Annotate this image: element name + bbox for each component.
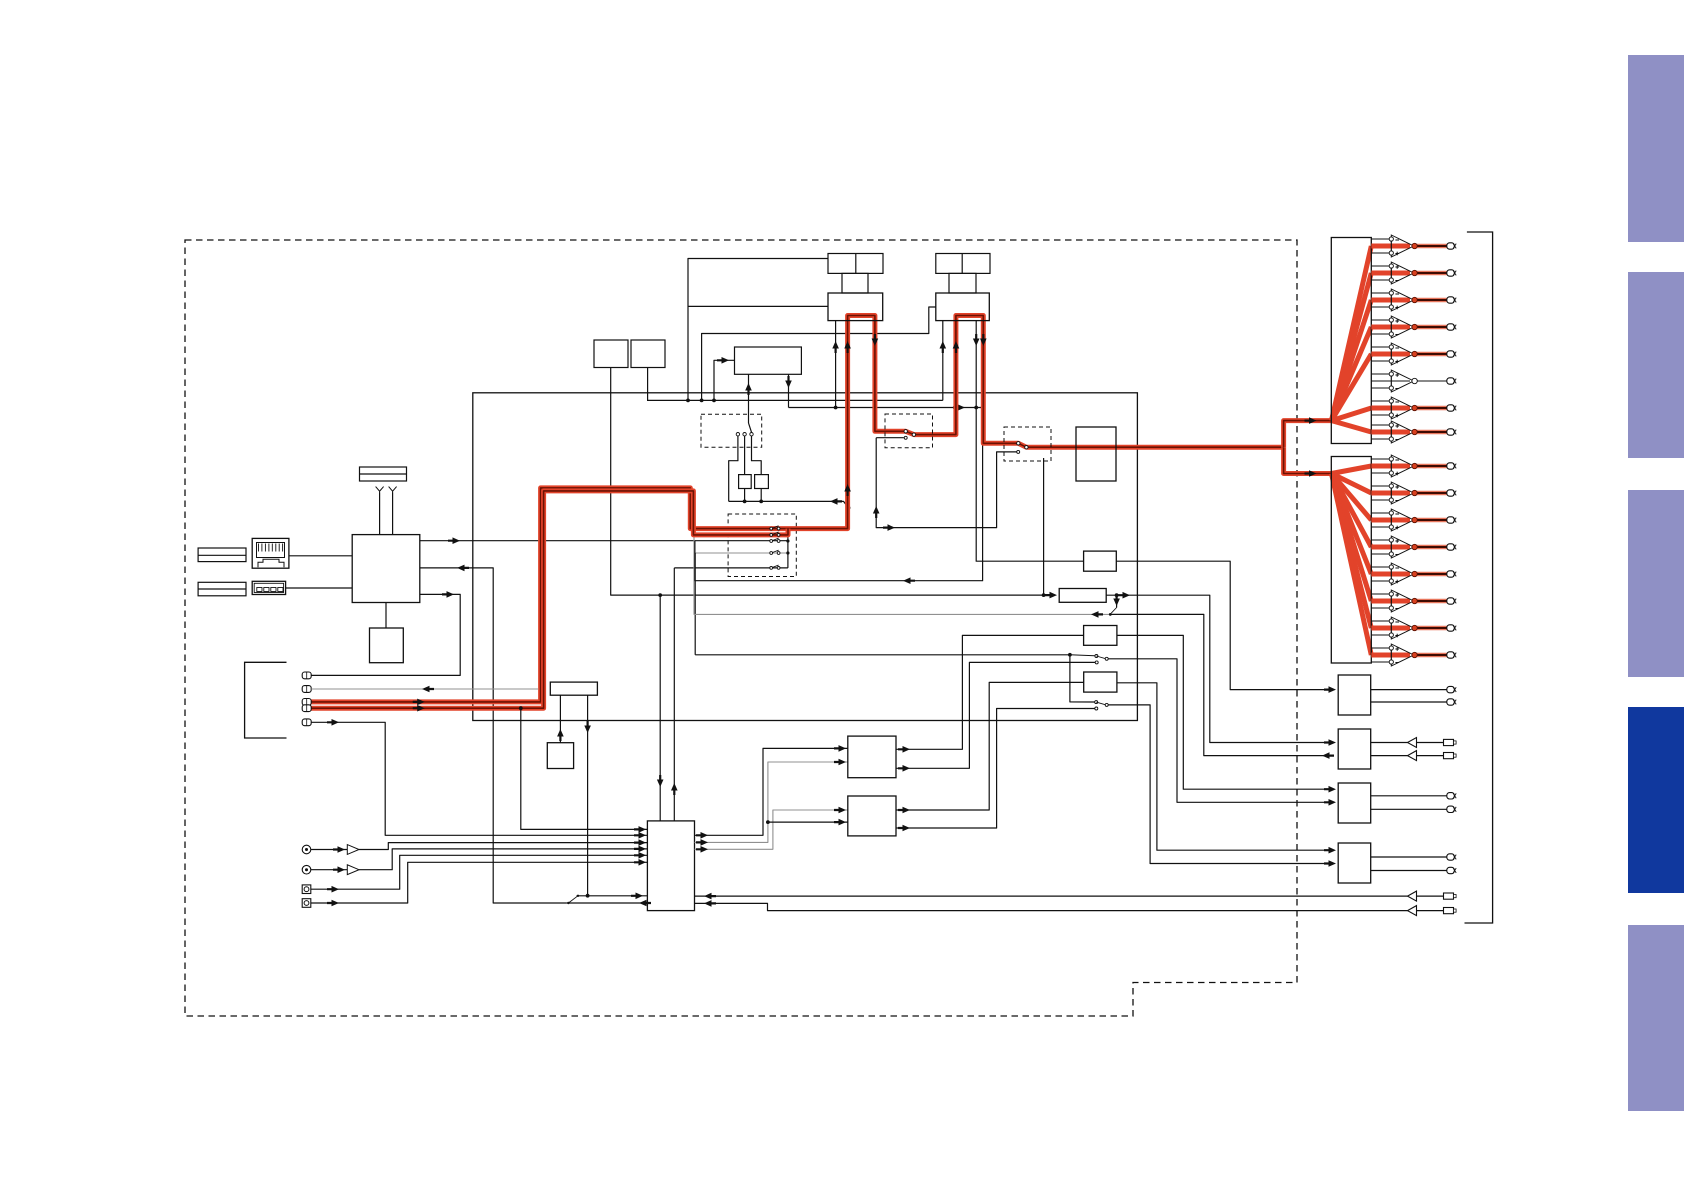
wire wide-box out2 to bus y407.5: [788, 374, 790, 407]
selector contacts over red: [771, 526, 778, 529]
box D level2: [1084, 672, 1117, 692]
wire S1 out to R3 in2: [1108, 659, 1331, 803]
wire dig out to ADC: [311, 722, 647, 835]
box small U1: [594, 340, 628, 368]
wire monitor line into ADC y903: [567, 902, 648, 904]
wire card2 black right to boxA: [976, 321, 1083, 562]
bottom input row 2 triangle+jack: [1408, 906, 1417, 916]
box display sub: [547, 743, 573, 769]
op-amp out row y493: [1371, 485, 1389, 487]
red path split to DAC banks: [1284, 421, 1332, 448]
wire display left leg: [559, 695, 561, 743]
wire aux line: [311, 688, 538, 690]
card1 mid block: [842, 273, 868, 293]
sidebar tab 3: [1628, 490, 1684, 677]
antenna double-bar box: [360, 467, 407, 481]
op-amp out row y408: [1371, 400, 1389, 402]
wire jack4 to ADC: [311, 862, 648, 903]
wire bypass1 alt path down: [876, 438, 1016, 528]
wire boxB input y595: [658, 593, 662, 597]
wire feed card1 main y306.4: [688, 305, 828, 307]
lever boxB switch: [1111, 608, 1116, 614]
jack phones out: [302, 672, 311, 679]
card1 main box: [828, 293, 883, 321]
wire boxC out to R3: [1117, 635, 1331, 789]
wire boxA out to R1: [1116, 561, 1331, 689]
wire RCA2 to ADC: [359, 849, 647, 870]
dashed box power switch: [701, 414, 762, 447]
wire S2 alt from boxF out2: [896, 709, 1095, 829]
op-amp out row y574: [1371, 566, 1389, 568]
jack aux in: [302, 686, 311, 693]
wire bus y400: [647, 399, 943, 401]
wire fuse net right: [752, 436, 762, 475]
switch S1 under boxC: [1068, 653, 1072, 657]
op-amp out row y327: [1371, 319, 1389, 321]
big DSP boundary box: [473, 393, 1138, 721]
op-amp out row y655: [1371, 647, 1389, 649]
bar module 1: [198, 548, 246, 562]
sidebar tab 2: [1628, 272, 1684, 458]
dashed box input selector: [728, 514, 796, 577]
box ADC: [647, 821, 694, 911]
dashed enclosure border: [185, 240, 1297, 1016]
op-amp out row y432: [1371, 424, 1389, 426]
wire trunk branch boxF in2: [768, 821, 848, 823]
switch boxB monitor: [1115, 593, 1119, 597]
wire ADC out3: [695, 810, 848, 849]
op-amp out row y381: [1371, 373, 1389, 375]
wire y595 verticals to ADC: [659, 595, 661, 821]
dashed box bypass switch 1: [885, 414, 933, 448]
op-amp out row y273: [1371, 265, 1389, 267]
jack dig out: [302, 719, 311, 726]
wire U2 down to bus y400: [647, 368, 649, 401]
box small U2: [631, 340, 665, 368]
box R4 word out: [1338, 843, 1371, 883]
wire ADC out1: [695, 748, 848, 835]
wire ADC out2: [695, 762, 848, 842]
switch S2: [1070, 655, 1095, 702]
op-amp out row y628: [1371, 620, 1389, 622]
wire bypass2 branch down to y595: [1043, 458, 1045, 595]
box sub (clock): [370, 628, 404, 663]
wire S1 alt from boxE out2: [896, 662, 1095, 768]
sidebar tab 4 active: [1628, 707, 1684, 893]
card2 main box: [936, 293, 990, 321]
phone jack 3: [302, 885, 311, 894]
wire boxD out to R4: [1117, 683, 1331, 850]
op-amp out row y246: [1371, 238, 1389, 240]
fuse F2: [755, 475, 769, 489]
wire boxC in from boxE: [896, 635, 1084, 749]
wire ADC mon y903/910: [695, 903, 1408, 910]
amp tri 2: [311, 869, 348, 871]
wire feed card1 top box y258.5: [688, 259, 828, 401]
DAC bank1 fan rays: [1332, 246, 1372, 421]
box DIR: [1076, 427, 1116, 481]
phone jack 4: [302, 899, 311, 908]
antenna symbol 1: [376, 487, 384, 493]
wire card2 black left return: [942, 321, 944, 401]
op-amp out row y520: [1371, 512, 1389, 514]
box display bar: [550, 682, 597, 695]
wire display node to ADC y895.7: [577, 895, 648, 897]
bottom input row 1 triangle+jack: [1408, 891, 1417, 901]
bracket output group: [1465, 232, 1493, 923]
box C SRC2: [1084, 626, 1117, 646]
antenna symbol 2: [389, 487, 397, 493]
main CPU box: [352, 535, 420, 603]
card2 top connector: [936, 254, 990, 274]
wire y580.5 line: [695, 408, 983, 581]
wire S2 out to R4 in2: [1108, 705, 1331, 864]
arrows on red verticals: [413, 699, 425, 706]
box wide control: [735, 347, 802, 374]
wire wide-box input: [714, 360, 735, 400]
wire selector row4 feed: [695, 552, 788, 554]
card2 mid block: [949, 273, 976, 293]
lever monitor switch: [569, 896, 578, 903]
switch lever SW-P: [749, 423, 752, 433]
wire y655 line: [695, 654, 1070, 656]
wire wide-box out1 to switch pole: [748, 374, 750, 423]
wire selector row5 tap to ADC: [673, 568, 675, 821]
RCA jack 2: [302, 865, 311, 874]
jack line L (red): [302, 699, 311, 706]
wire boxD in from boxF: [896, 682, 1084, 810]
box DAC bank2: [1331, 457, 1371, 664]
wire ADC return y896: [695, 895, 1408, 897]
box B level: [1059, 589, 1106, 603]
op-amp out row y601: [1371, 593, 1389, 595]
USB connector: [252, 581, 285, 594]
bus selector output: [787, 535, 789, 568]
wire fuse net left: [729, 436, 738, 502]
box E effect1: [848, 736, 896, 778]
box R2 dig io: [1338, 729, 1371, 769]
ADC input arrows: [634, 826, 646, 833]
DAC bank2 fan rays: [1332, 466, 1372, 474]
box DAC bank1: [1331, 238, 1371, 444]
wire selector row5: [674, 567, 788, 569]
box A SRC1: [1084, 551, 1117, 571]
op-amp out row y300: [1371, 292, 1389, 294]
dashed box bypass switch 2: [1004, 427, 1051, 461]
wire main-box out y540 to selector row3: [420, 540, 788, 542]
wire jack3 to ADC: [311, 855, 648, 889]
wire main-box io y567.7 monitor return: [420, 568, 567, 903]
wire gray y614 to R2 return: [1110, 614, 1331, 755]
card1 top connector: [828, 254, 883, 274]
wire bus y407.5: [789, 407, 983, 409]
amp tri 1: [311, 849, 348, 851]
wire R1 outs: [1371, 689, 1447, 691]
wire RCA1 to ADC: [359, 843, 647, 850]
RCA jack 1: [302, 845, 311, 854]
box R1 dig out: [1338, 675, 1371, 715]
wire boxB out to R2: [1106, 595, 1331, 742]
red path input L: [311, 316, 1284, 702]
wire bypass1 alt contact: [876, 437, 904, 439]
op-amp out row y466: [1371, 458, 1389, 460]
wire R4 outs: [1371, 856, 1447, 858]
RJ45 connector: [252, 538, 289, 568]
bracket expansion slot: [245, 662, 287, 738]
wire main-box to sub-box: [385, 603, 387, 629]
wire R2 rows to tris: [1371, 742, 1408, 744]
box F effect2: [848, 796, 896, 836]
wire main-box out y594 to phones jack: [312, 594, 461, 675]
op-amp out row y547: [1371, 539, 1389, 541]
wire USB to main box: [286, 587, 353, 589]
box R3 aes out: [1338, 783, 1371, 823]
jack line R (red): [302, 705, 311, 712]
wire selector levers rows3-5: [771, 538, 778, 541]
wire fuse rail y501: [744, 489, 746, 502]
wire fuse net mid: [744, 436, 746, 475]
sidebar tab 5: [1628, 925, 1684, 1111]
wire red tap to ADC in1: [521, 708, 648, 829]
red path input R: [311, 491, 788, 708]
fuse F1: [739, 475, 752, 489]
op-amp out row y354: [1371, 346, 1389, 348]
wire antenna leads: [379, 493, 381, 535]
wire feed card2 main y333.5: [702, 307, 936, 400]
wire display right leg down: [587, 695, 589, 896]
wire RJ45 to main box: [289, 555, 352, 557]
bar module 2: [198, 582, 246, 596]
wire U1 down to y595 bus: [611, 368, 1049, 596]
wire R3 outs: [1371, 795, 1447, 797]
wire card1 black return: [835, 321, 837, 408]
sidebar tab 1: [1628, 55, 1684, 242]
wire black under red to gray y614: [694, 536, 1110, 614]
